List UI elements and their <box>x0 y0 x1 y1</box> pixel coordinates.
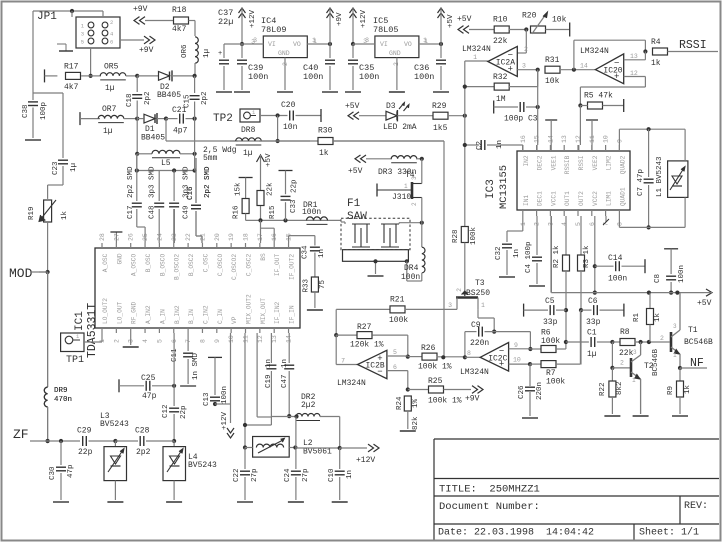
svg-text:IN1: IN1 <box>523 195 530 206</box>
svg-text:2p2: 2p2 <box>201 91 209 105</box>
svg-text:100n: 100n <box>302 208 321 217</box>
svg-text:24: 24 <box>156 233 163 241</box>
resistor R7 100k <box>541 310 580 386</box>
resistor R16 15k <box>233 182 249 220</box>
resistor R2 1k <box>553 216 570 342</box>
svg-text:28: 28 <box>99 233 106 241</box>
svg-text:BB405: BB405 <box>157 91 181 100</box>
wire IC2B output loop <box>336 335 357 364</box>
filter F1 SAW <box>341 198 410 261</box>
resistor R1 1k <box>633 293 662 342</box>
svg-text:+12V: +12V <box>360 9 368 28</box>
JP1 ground <box>57 44 73 51</box>
svg-text:C38: C38 <box>22 104 30 118</box>
power +12V arrow right <box>356 444 379 465</box>
wire L1 bottom loop <box>619 197 685 227</box>
svg-text:VI: VI <box>268 41 276 48</box>
resistor R29 1k5 <box>432 102 467 133</box>
svg-text:TITLE: 250MHZZ1: TITLE: 250MHZZ1 <box>439 484 540 496</box>
wire IC2A output column <box>465 61 488 226</box>
svg-text:VP: VP <box>231 316 238 324</box>
test point TP1 <box>61 333 84 366</box>
wire IC20 output pin13 <box>624 52 646 61</box>
svg-text:B_OSC2: B_OSC2 <box>188 254 195 277</box>
svg-text:R30: R30 <box>318 127 333 136</box>
svg-text:LIM2: LIM2 <box>606 155 613 170</box>
svg-text:IC1: IC1 <box>74 311 86 331</box>
power +9V arrow left <box>133 5 173 24</box>
IC4 ground pin <box>277 58 293 92</box>
wire IC20 feedback <box>574 40 648 69</box>
label 2,5 Wdg 5mm <box>203 146 237 163</box>
svg-text:LO_OUT2: LO_OUT2 <box>102 298 109 324</box>
svg-text:R29: R29 <box>432 102 447 111</box>
svg-text:3: 3 <box>253 37 257 44</box>
svg-text:L1 BV5243: L1 BV5243 <box>656 156 664 197</box>
svg-text:5: 5 <box>393 349 397 356</box>
svg-text:DR4: DR4 <box>404 264 419 273</box>
svg-text:C5: C5 <box>545 297 555 306</box>
svg-text:33p: 33p <box>543 318 558 327</box>
svg-text:B_OSC: B_OSC <box>145 253 152 272</box>
capacitor C33 22p <box>279 171 299 221</box>
resistor R30 1k <box>318 127 444 159</box>
svg-text:100k 1%: 100k 1% <box>418 363 452 372</box>
svg-text:22k: 22k <box>619 349 634 358</box>
svg-text:1k: 1k <box>654 312 662 322</box>
wire IC3 pin15 down <box>536 145 538 151</box>
transistor T4 J310 <box>377 159 422 223</box>
svg-text:3: 3 <box>673 323 677 330</box>
svg-text:2p2 SMD: 2p2 SMD <box>127 166 135 198</box>
capacitor C18 2p2 <box>126 76 152 119</box>
resistor R8 22k <box>612 328 669 358</box>
terminal R17 left <box>45 69 58 82</box>
op-amp IC20 LM324N <box>580 47 624 84</box>
svg-text:LM324N: LM324N <box>462 45 491 54</box>
svg-text:+12V: +12V <box>356 456 375 465</box>
svg-text:GND: GND <box>278 50 290 57</box>
svg-text:1: 1 <box>632 377 636 384</box>
svg-text:DEC2: DEC2 <box>537 155 544 170</box>
svg-text:1n: 1n <box>513 249 521 258</box>
wire MOD down <box>47 271 49 273</box>
capacitor C5 33p <box>524 297 566 327</box>
svg-text:+5V: +5V <box>697 299 712 308</box>
svg-text:R5 47k: R5 47k <box>584 92 613 101</box>
inductor OR5 <box>91 63 140 94</box>
svg-text:1n: 1n <box>318 249 326 258</box>
svg-text:BC546B: BC546B <box>684 338 713 347</box>
label DR1 100n <box>302 208 321 217</box>
svg-text:C25: C25 <box>141 374 156 383</box>
IC5 label <box>373 16 399 35</box>
svg-text:3p3 SMD: 3p3 SMD <box>149 166 157 198</box>
svg-text:C_OSC: C_OSC <box>202 253 209 272</box>
wire VCC2 pin6 down <box>593 216 597 295</box>
capacitor C11 1n SMD <box>171 333 200 386</box>
svg-text:10k: 10k <box>552 16 567 25</box>
net ZF label <box>13 427 29 442</box>
svg-text:2µ2: 2µ2 <box>301 401 316 410</box>
wire IC1 pin6 column <box>173 333 175 386</box>
wire pin15 to C34 <box>289 236 315 246</box>
svg-text:8: 8 <box>467 350 471 357</box>
svg-text:R3 1k: R3 1k <box>583 245 591 268</box>
svg-text:Document Number:: Document Number: <box>439 501 540 513</box>
svg-text:1µ: 1µ <box>243 149 253 158</box>
svg-text:3: 3 <box>365 37 369 44</box>
wire R31 node to IC3 pin15 <box>537 70 539 145</box>
svg-text:R4: R4 <box>651 38 661 47</box>
svg-text:100n: 100n <box>221 386 229 404</box>
capacitor C12 22p <box>162 386 188 443</box>
inductor DR1 100n <box>303 201 328 224</box>
resistor R15 22k <box>257 182 277 219</box>
svg-text:100k: 100k <box>541 337 560 346</box>
svg-text:T1: T1 <box>688 326 698 335</box>
wire JP1 left down <box>32 11 34 93</box>
svg-text:11: 11 <box>243 335 250 343</box>
svg-text:1: 1 <box>423 37 427 44</box>
capacitor C23 1u <box>52 160 78 185</box>
svg-text:1n: 1n <box>496 140 504 149</box>
svg-text:1: 1 <box>473 54 477 61</box>
net NF label <box>690 357 704 370</box>
svg-text:+9V: +9V <box>336 12 344 26</box>
svg-text:R19: R19 <box>28 206 36 220</box>
svg-text:100k: 100k <box>546 378 565 387</box>
svg-text:19: 19 <box>228 233 235 241</box>
svg-text:3: 3 <box>411 176 418 180</box>
label R24 82k <box>412 416 420 430</box>
power +5V arrow up IC5 out <box>438 8 456 44</box>
svg-text:C15: C15 <box>184 94 192 108</box>
svg-text:IF_OUT2: IF_OUT2 <box>289 254 296 280</box>
svg-text:4p7: 4p7 <box>173 127 188 136</box>
svg-text:1k: 1k <box>319 149 329 158</box>
wire L1 connections <box>684 129 686 161</box>
capacitor C19 1n <box>265 333 276 425</box>
diode D2 BB405 <box>137 70 197 100</box>
capacitor C21 4p7 <box>166 106 197 136</box>
svg-text:IF_IN2: IF_IN2 <box>274 301 281 324</box>
svg-text:1µ: 1µ <box>203 49 211 58</box>
IC1 TDA5331T body <box>74 248 300 358</box>
svg-text:R28: R28 <box>452 229 460 243</box>
svg-text:C14: C14 <box>608 254 623 263</box>
svg-text:MC13155: MC13155 <box>498 165 510 209</box>
transistor T3 BS250 <box>448 279 490 309</box>
svg-text:+12V: +12V <box>221 411 229 430</box>
svg-text:C22: C22 <box>233 468 241 482</box>
svg-text:VCC1: VCC1 <box>550 191 557 206</box>
title block <box>434 439 719 540</box>
wire R19 to MOD <box>30 222 50 274</box>
svg-text:1: 1 <box>404 183 408 190</box>
svg-text:+: + <box>218 50 222 58</box>
svg-text:TDA5331T: TDA5331T <box>86 303 99 358</box>
label L4 BV5243 <box>188 453 217 470</box>
svg-text:C_OSCO: C_OSCO <box>217 254 224 277</box>
svg-text:−: − <box>614 59 619 69</box>
svg-text:C11: C11 <box>171 348 179 362</box>
svg-text:DEC1: DEC1 <box>537 191 544 206</box>
IC1 bottom pins 1-14 <box>99 294 296 343</box>
terminal OR7 left <box>80 112 100 125</box>
svg-text:C47: C47 <box>281 374 289 388</box>
svg-text:VO: VO <box>404 41 412 48</box>
svg-text:C34: C34 <box>302 245 310 259</box>
svg-text:12: 12 <box>630 70 638 77</box>
svg-text:MOD: MOD <box>9 266 33 281</box>
resistor R31 10k <box>545 56 595 86</box>
wire IC1 pin1 to TP1 <box>101 333 103 342</box>
svg-text:R33: R33 <box>303 278 311 292</box>
svg-text:VEE2: VEE2 <box>592 155 599 170</box>
wire L1 top loop <box>619 127 685 145</box>
wire IC3 pin1 to C32 <box>507 216 523 242</box>
svg-text:1n: 1n <box>281 359 289 368</box>
svg-text:C_OSCO2: C_OSCO2 <box>231 254 238 280</box>
svg-text:VCC2: VCC2 <box>592 191 599 206</box>
wire +5V rail <box>551 291 704 295</box>
power +12V arrow up IC5 <box>350 8 369 46</box>
svg-text:C48: C48 <box>149 205 157 219</box>
svg-text:GND: GND <box>116 253 123 264</box>
resistor 1M with C3 100p <box>494 95 540 124</box>
svg-text:C_IN2: C_IN2 <box>202 305 209 324</box>
svg-text:LED 2mA: LED 2mA <box>383 123 417 132</box>
IC5 ground pin <box>389 58 405 92</box>
svg-text:IC2C: IC2C <box>488 354 507 363</box>
svg-text:8: 8 <box>199 339 206 343</box>
svg-text:IC3: IC3 <box>485 179 497 199</box>
svg-text:R10: R10 <box>493 16 508 25</box>
svg-text:ZF: ZF <box>13 427 29 442</box>
svg-text:R8: R8 <box>620 328 630 337</box>
wire IC2A noninv input <box>517 63 540 72</box>
svg-text:10: 10 <box>228 335 235 343</box>
svg-text:C9: C9 <box>471 321 481 330</box>
svg-text:C20: C20 <box>281 101 296 110</box>
svg-text:+5V: +5V <box>457 15 472 24</box>
svg-text:RSSI: RSSI <box>578 155 585 170</box>
svg-text:78L05: 78L05 <box>373 25 399 35</box>
svg-text:R21: R21 <box>390 296 405 305</box>
LED D3 2mA <box>383 102 433 132</box>
svg-text:R18: R18 <box>172 6 187 15</box>
svg-text:TP1: TP1 <box>66 355 84 366</box>
capacitor C39 100n <box>234 44 268 92</box>
wire IC2C input node <box>441 350 480 359</box>
svg-text:1M: 1M <box>496 95 506 104</box>
wire IC4 output rail <box>307 37 332 46</box>
svg-text:100n: 100n <box>678 265 686 283</box>
wire D1 node down to TP2 row <box>166 119 444 141</box>
svg-text:2p2: 2p2 <box>144 91 152 105</box>
resistor R26 100k 1% <box>408 344 465 372</box>
svg-text:LM324N: LM324N <box>337 379 366 388</box>
capacitor C35 100n <box>345 44 379 92</box>
capacitor C37 22u <box>216 8 233 92</box>
wire +12V row <box>296 446 367 450</box>
wire IC5 output rail <box>419 37 443 46</box>
svg-text:22p: 22p <box>78 448 93 457</box>
capacitor C24 27p <box>284 448 310 503</box>
wire JP1 top <box>33 9 103 17</box>
svg-text:A_IN2: A_IN2 <box>145 305 152 324</box>
svg-text:C4 100p: C4 100p <box>525 241 533 273</box>
svg-text:10k: 10k <box>545 77 560 86</box>
resistor R18 <box>172 6 195 36</box>
svg-text:C8: C8 <box>654 274 662 283</box>
resistor R5 47k <box>580 92 623 113</box>
svg-text:DR8: DR8 <box>241 126 256 135</box>
power +5V arrow D3 row <box>345 102 386 120</box>
wire RSSI pin12 column <box>579 106 581 146</box>
svg-text:R2 1k: R2 1k <box>553 245 561 268</box>
svg-text:BV5243: BV5243 <box>188 461 217 470</box>
svg-text:OUT1: OUT1 <box>564 191 571 206</box>
svg-text:26: 26 <box>128 233 135 241</box>
power +5V arrow rail <box>697 289 712 308</box>
svg-text:+: + <box>508 64 513 74</box>
power +9V arrow up IC4 out <box>327 8 345 44</box>
power +9V arrow R25 <box>465 386 483 404</box>
svg-text:+9V: +9V <box>465 395 480 404</box>
svg-text:L5: L5 <box>161 159 171 168</box>
resistor R28 100k <box>452 226 478 291</box>
svg-text:13: 13 <box>271 335 278 343</box>
wire R16 R15 C33 row <box>246 218 341 222</box>
trimmer R19 1k <box>28 200 69 222</box>
svg-text:100n: 100n <box>608 275 627 284</box>
varactor L4 BV5243 <box>163 441 186 502</box>
transistor T1 BC546B <box>671 293 713 368</box>
svg-text:13: 13 <box>561 135 568 143</box>
svg-text:2: 2 <box>110 19 113 26</box>
svg-text:Date: 22.03.1998 14:04:42: Date: 22.03.1998 14:04:42 <box>438 528 594 539</box>
svg-text:14: 14 <box>580 62 588 69</box>
svg-text:C30: C30 <box>49 466 57 480</box>
IC1 top pins 28-15 <box>99 233 296 280</box>
svg-text:R22: R22 <box>599 382 607 396</box>
capacitor C32 1n <box>495 244 521 277</box>
svg-text:47p: 47p <box>142 392 157 401</box>
svg-text:22: 22 <box>185 233 192 241</box>
svg-text:5: 5 <box>156 339 163 343</box>
svg-text:C49: C49 <box>183 205 191 219</box>
svg-text:−: − <box>508 51 513 61</box>
svg-text:Sheet: 1/1: Sheet: 1/1 <box>639 527 699 539</box>
svg-text:100k 1%: 100k 1% <box>428 397 462 406</box>
wire SMD cap top row <box>135 168 197 172</box>
svg-text:IF_IN: IF_IN <box>289 305 296 324</box>
inductor OR7 <box>98 105 139 136</box>
svg-text:5mm: 5mm <box>203 154 218 163</box>
power +9V arrow right <box>120 36 155 55</box>
svg-text:IN2: IN2 <box>523 155 530 166</box>
svg-text:C16: C16 <box>187 186 195 200</box>
svg-text:R31: R31 <box>545 56 560 65</box>
svg-text:1: 1 <box>481 302 485 309</box>
capacitor C38 100p <box>22 93 48 140</box>
wire NF node <box>678 366 707 370</box>
svg-text:B_OSCO2: B_OSCO2 <box>174 254 181 280</box>
svg-text:1n SMD: 1n SMD <box>192 352 200 380</box>
diode D1 BB405 <box>137 113 168 143</box>
inductor OR6 <box>181 37 211 76</box>
svg-text:R32: R32 <box>493 73 508 82</box>
svg-text:1µ: 1µ <box>587 350 597 359</box>
svg-text:3: 3 <box>448 302 452 309</box>
svg-text:100n: 100n <box>248 72 268 82</box>
svg-text:18: 18 <box>243 233 250 241</box>
IC3 pin7 stub <box>603 216 609 225</box>
svg-text:+: + <box>614 72 619 82</box>
inductor L5 <box>135 119 197 168</box>
svg-text:100n: 100n <box>303 72 323 82</box>
svg-text:BS: BS <box>260 253 267 261</box>
svg-text:12: 12 <box>257 335 264 343</box>
inductor DR3 330n <box>378 156 424 177</box>
op-amp IC2A LM324N <box>462 45 517 77</box>
svg-text:C26: C26 <box>518 385 526 399</box>
svg-text:LO_OUT: LO_OUT <box>116 301 123 324</box>
capacitor C34 1n <box>302 245 327 277</box>
svg-text:8k2: 8k2 <box>616 381 624 395</box>
svg-text:82k: 82k <box>412 416 420 430</box>
wire SAW output <box>399 221 424 225</box>
svg-text:1%: 1% <box>412 398 420 408</box>
svg-text:R16: R16 <box>233 205 241 219</box>
svg-text:A_OSCO: A_OSCO <box>131 254 138 277</box>
svg-text:OR6: OR6 <box>181 44 189 58</box>
svg-text:+9V: +9V <box>133 5 148 14</box>
svg-text:OR7: OR7 <box>102 105 117 114</box>
capacitor C48 3p3 SMD <box>149 166 165 243</box>
svg-text:4k7: 4k7 <box>64 83 79 92</box>
svg-text:C10: C10 <box>328 468 336 482</box>
wire IC5 input rail <box>353 37 375 44</box>
variable inductor L2 BV5061 <box>245 437 332 458</box>
svg-text:R25: R25 <box>428 377 443 386</box>
wire IC2B inv input to R25 <box>387 364 410 392</box>
inductor DR2 2u2 <box>271 393 339 448</box>
svg-text:−: − <box>499 347 504 357</box>
svg-text:BB405: BB405 <box>141 134 165 143</box>
svg-text:C19: C19 <box>265 374 273 388</box>
svg-text:C6: C6 <box>588 297 598 306</box>
varactor L3 BV5243 <box>100 412 129 502</box>
svg-text:R26: R26 <box>421 344 436 353</box>
svg-text:100n: 100n <box>359 72 379 82</box>
wire C23 to R19 <box>48 185 63 199</box>
svg-text:2: 2 <box>411 202 418 206</box>
svg-text:C23: C23 <box>52 161 60 175</box>
svg-text:20: 20 <box>214 233 221 241</box>
svg-text:R1: R1 <box>633 312 641 322</box>
svg-text:J310: J310 <box>392 193 411 202</box>
svg-text:+5V: +5V <box>348 167 363 176</box>
svg-text:22p: 22p <box>291 179 299 193</box>
svg-text:R15: R15 <box>269 205 277 219</box>
svg-text:C18: C18 <box>126 93 134 107</box>
inductor DR4 100n <box>401 223 425 282</box>
svg-text:6: 6 <box>110 39 113 46</box>
wire ZF row <box>30 440 80 442</box>
